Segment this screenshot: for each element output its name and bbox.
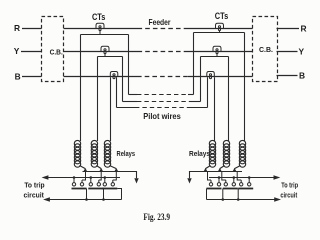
wire B feeder to right C.B. bbox=[188, 76, 253, 78]
wire CT-left-R lead to relay 1 bbox=[80, 35, 82, 142]
wire CT-right-B lead to pilot wire 3 bbox=[207, 77, 209, 107]
wire left trip bus (line B) bbox=[45, 177, 120, 179]
svg-text:Fig. 23.9: Fig. 23.9 bbox=[143, 213, 170, 223]
relay coil 6 (right R) bbox=[235, 140, 246, 168]
wire left trip arrow (top) bbox=[42, 175, 49, 179]
pilot wire 2 (Y) solid left end bbox=[123, 101, 138, 103]
junction right coil 5 to common bbox=[218, 168, 222, 172]
wire right relay common (line A) bbox=[190, 172, 243, 179]
wire CT-left-R lead to pilot wire 1 bbox=[128, 35, 130, 95]
wire CT-right-R lead to relay 6 bbox=[244, 33, 246, 142]
svg-text:Relays: Relays bbox=[117, 149, 136, 158]
wire right C.B. to Y label bbox=[277, 51, 298, 53]
relay contact 4 (right) bbox=[207, 172, 222, 200]
wire right trip arrow (bottom) bbox=[274, 197, 281, 201]
relay contact 3 (left) bbox=[102, 172, 121, 200]
wire CT-right-B lead to relay 4 bbox=[214, 77, 216, 141]
ground (right earth arrow) bbox=[187, 178, 191, 183]
svg-text:circuit: circuit bbox=[24, 192, 45, 199]
junction left coil 1 to common bbox=[83, 168, 87, 172]
relay coil 1 (left R) bbox=[74, 140, 85, 168]
relay coil 2 (left Y) bbox=[91, 140, 101, 168]
relay contact 6 (right) bbox=[237, 172, 253, 200]
wire right C.B. to R label bbox=[277, 28, 300, 30]
wire CT-left-R secondary connector bbox=[81, 34, 129, 36]
svg-text:CTs: CTs bbox=[92, 12, 106, 23]
CT right R-phase bbox=[216, 23, 224, 32]
pilot wire 2 (Y) dashed middle bbox=[137, 101, 189, 103]
wire Y phase, left C.B. to feeder dashed section bbox=[64, 51, 138, 53]
wire right trip bus (line B) bbox=[209, 177, 277, 179]
wire R feeder to right C.B. bbox=[188, 28, 253, 30]
pilot wire 1 (R) solid left end bbox=[129, 94, 138, 96]
svg-text:circuit: circuit bbox=[280, 193, 297, 200]
wire CT-left-Y lead to relay 2 bbox=[97, 57, 99, 142]
pilot wire 3 (B) solid left end bbox=[117, 107, 136, 109]
relay coil 3 (left B) bbox=[104, 140, 116, 168]
wire CT-left-Y lead to pilot wire 2 bbox=[122, 57, 124, 102]
wire B feeder (dashed section) bbox=[137, 76, 188, 78]
pilot wire 1 (R) dashed middle bbox=[137, 94, 188, 96]
wire CT-left-Y secondary connector bbox=[98, 56, 123, 58]
junction right coil 4 to common bbox=[203, 168, 207, 172]
svg-text:C.B.: C.B. bbox=[50, 48, 63, 57]
wire R label to left C.B. bbox=[22, 28, 42, 30]
svg-text:Y: Y bbox=[14, 46, 20, 56]
wire B label to left C.B. bbox=[22, 76, 42, 78]
svg-text:To trip: To trip bbox=[24, 183, 44, 190]
wire left trip arrow (bottom) bbox=[43, 197, 50, 201]
svg-text:R: R bbox=[300, 24, 306, 34]
CT left B-phase bbox=[110, 72, 118, 79]
svg-text:To trip: To trip bbox=[281, 182, 298, 189]
CT left R-phase bbox=[96, 23, 104, 34]
wire CT-right-Y lead to pilot wire 2 bbox=[200, 57, 202, 102]
svg-text:B: B bbox=[299, 70, 305, 80]
relay contact 2 (left) bbox=[88, 172, 103, 200]
wire CT-right-R lead to pilot wire 1 bbox=[193, 33, 195, 95]
svg-text:Feeder: Feeder bbox=[149, 18, 172, 27]
wire right trip arrow (top) bbox=[274, 175, 281, 179]
junction left coil 3 to common bbox=[114, 168, 118, 172]
svg-text:B: B bbox=[15, 72, 21, 82]
wire Y feeder (dashed section) bbox=[138, 51, 189, 53]
relay coil 4 (right B) bbox=[206, 140, 216, 168]
pilot wire 3 (B) dashed middle bbox=[135, 107, 191, 109]
wire R phase, left C.B. to feeder dashed section bbox=[64, 28, 138, 30]
wire right C.B. to B label bbox=[277, 75, 298, 77]
circuit breaker C.B. right (dashed box) bbox=[253, 17, 278, 82]
svg-text:C.B.: C.B. bbox=[259, 45, 273, 54]
wire right trip bus (bottom) bbox=[207, 199, 279, 201]
wire B phase, left C.B. to feeder dashed section bbox=[64, 76, 138, 78]
wire R feeder (dashed section) bbox=[138, 28, 189, 30]
svg-text:Relays: Relays bbox=[189, 149, 210, 158]
junction left coil 2 to common bbox=[99, 168, 103, 172]
CT right B-phase bbox=[207, 72, 215, 79]
pilot wire 1 (R) solid right end bbox=[188, 94, 194, 96]
circuit breaker C.B. left (dashed box) bbox=[42, 17, 64, 82]
relay contact 1 (left) bbox=[72, 172, 87, 200]
wire left trip bus (bottom) bbox=[46, 199, 122, 201]
relay coil 5 (right Y) bbox=[220, 140, 230, 168]
pilot wire 2 (Y) solid right end bbox=[189, 101, 201, 103]
relay contact 5 (right) bbox=[222, 172, 238, 200]
svg-text:R: R bbox=[14, 23, 20, 33]
wire Y label to left C.B. bbox=[21, 51, 42, 53]
wire CT-right-Y lead to relay 5 bbox=[228, 57, 230, 142]
svg-text:Pilot wires: Pilot wires bbox=[143, 111, 181, 121]
wire CT-left-B lead to relay 3 bbox=[110, 77, 112, 141]
junction right coil 6 to common bbox=[232, 168, 236, 172]
wire Y feeder to right C.B. bbox=[188, 51, 253, 53]
wire CT-right-Y secondary connector bbox=[201, 56, 229, 58]
ground (left earth arrow) bbox=[134, 178, 138, 183]
svg-text:Y: Y bbox=[299, 46, 305, 56]
CT right Y-phase bbox=[213, 46, 221, 56]
CT left Y-phase bbox=[101, 46, 109, 56]
wire CT-left-B lead to pilot wire 3 bbox=[116, 77, 118, 107]
wire left relay common (line A) bbox=[83, 172, 137, 179]
pilot wire 3 (B) solid right end bbox=[191, 107, 208, 109]
svg-text:CTs: CTs bbox=[215, 11, 229, 21]
wire CT-right-R secondary connector bbox=[194, 32, 245, 34]
